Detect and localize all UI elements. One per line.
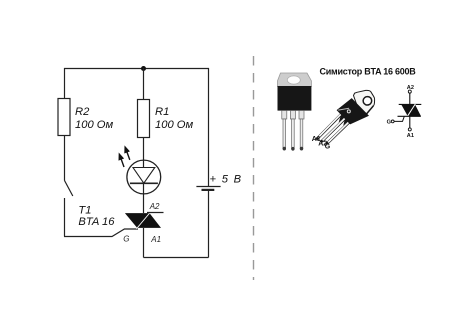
switch blade bbox=[65, 181, 73, 197]
pinout G terminal circle bbox=[391, 120, 394, 123]
TO-220 3D leg shadow wedge 2 bbox=[343, 118, 348, 126]
TO-220 3D view dot bbox=[347, 110, 350, 113]
pinout bottom bar bbox=[398, 115, 421, 117]
TO-220 3D leg G bbox=[327, 122, 349, 143]
wire bottom horizontal bbox=[144, 257, 209, 259]
battery short plate bbox=[202, 189, 215, 191]
TO-220 3D view body bbox=[337, 98, 369, 124]
wire right lower bbox=[208, 190, 210, 258]
svg-text:100 Ом: 100 Ом bbox=[155, 119, 193, 131]
TO-220 3D view hole bbox=[362, 95, 373, 106]
svg-text:A1: A1 bbox=[407, 133, 414, 139]
resistor R2 bbox=[58, 99, 70, 136]
pinout G lead bbox=[394, 116, 404, 121]
svg-text:G: G bbox=[123, 235, 129, 244]
TO-220 front leg 2 bbox=[292, 119, 295, 149]
resistor R1 bbox=[138, 100, 150, 138]
svg-text:A1: A1 bbox=[150, 235, 161, 244]
TO-220 front view tab bbox=[278, 73, 312, 87]
pinout A2 terminal circle bbox=[408, 90, 411, 93]
LED circle bbox=[127, 160, 161, 194]
svg-text:BTA 16: BTA 16 bbox=[78, 216, 115, 228]
TO-220 front leg 1 stub bbox=[282, 111, 287, 120]
triac white diagonal bbox=[136, 212, 150, 229]
TO-220 front leg 3 stub bbox=[299, 111, 304, 120]
triac symbol left triangle bbox=[125, 213, 150, 228]
svg-text:G: G bbox=[325, 144, 331, 151]
wire left lower bbox=[64, 198, 66, 237]
svg-text:100 Ом: 100 Ом bbox=[75, 119, 113, 131]
TO-220 front leg 1 tip bbox=[283, 147, 286, 151]
wire middle upper bbox=[143, 68, 145, 100]
LED light arrow 1 bbox=[119, 153, 125, 168]
wire gate run bbox=[64, 229, 138, 237]
svg-text:G: G bbox=[387, 120, 391, 126]
TO-220 3D leg A1 bbox=[317, 114, 341, 138]
LED light arrow 2 bbox=[124, 145, 130, 160]
svg-text:+ 5 В: + 5 В bbox=[210, 174, 243, 186]
TO-220 3D view tab bbox=[354, 90, 375, 115]
TO-220 front leg 3 bbox=[300, 119, 303, 149]
pinout A1 terminal circle bbox=[408, 128, 411, 131]
battery long plate bbox=[196, 186, 220, 188]
LED cathode bar bbox=[130, 182, 158, 184]
pinout right triangle bbox=[408, 104, 421, 116]
wire triac to bottom bbox=[143, 228, 145, 258]
TO-220 front view body bbox=[278, 86, 312, 111]
TO-220 front view hole bbox=[287, 76, 300, 84]
wire right upper bbox=[208, 68, 210, 186]
triac A2 lead line bbox=[147, 212, 164, 214]
wire left upper bbox=[64, 68, 66, 99]
TO-220 front leg 2 stub bbox=[290, 111, 295, 120]
svg-text:Симистор BTA 16 600В: Симистор BTA 16 600В bbox=[320, 67, 417, 77]
TO-220 3D leg shadow wedge 1 bbox=[339, 114, 345, 122]
pinout wire A1 bbox=[409, 116, 411, 128]
TO-220 3D view tab thickness edge bbox=[366, 106, 373, 115]
TO-220 front leg 1 bbox=[283, 119, 286, 149]
TO-220 3D leg A2 bbox=[322, 118, 345, 141]
node junction top bbox=[141, 66, 146, 71]
wire top horizontal bbox=[64, 68, 209, 70]
TO-220 front leg 2 tip bbox=[291, 147, 294, 151]
TO-220 3D view body edge highlight bbox=[338, 108, 349, 110]
wire left middle bbox=[64, 136, 66, 181]
triac symbol right triangle bbox=[137, 213, 161, 228]
divider dashed line bbox=[253, 56, 255, 280]
wire R1 to triac (through LED) bbox=[143, 138, 145, 214]
pinout top bar bbox=[399, 103, 422, 105]
pinout white diagonal bbox=[407, 104, 416, 117]
LED triangle anode bbox=[133, 168, 155, 184]
svg-text:T1: T1 bbox=[78, 205, 91, 217]
svg-text:R1: R1 bbox=[155, 106, 169, 118]
pinout left triangle bbox=[401, 104, 415, 116]
svg-text:A2: A2 bbox=[149, 202, 160, 211]
pinout wire A2 bbox=[409, 93, 411, 104]
TO-220 front leg 3 tip bbox=[300, 147, 303, 151]
svg-text:R2: R2 bbox=[75, 106, 90, 118]
